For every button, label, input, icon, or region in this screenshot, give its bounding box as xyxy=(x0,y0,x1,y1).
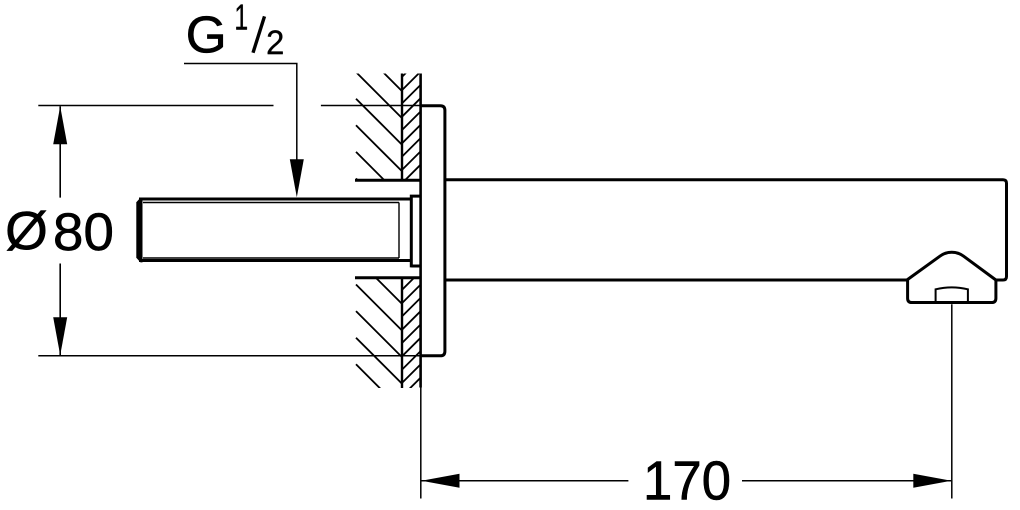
threaded nipple G1/2 outer lines xyxy=(139,199,411,261)
wall hole top edge xyxy=(355,179,421,182)
170 arrow left xyxy=(422,474,460,488)
dimension G 1/2 leader line xyxy=(184,64,297,162)
label 170 xyxy=(647,462,670,500)
dimension Ø80 bottom extension xyxy=(38,355,420,357)
dimension 170 line xyxy=(422,480,952,482)
outlet dome top xyxy=(907,252,996,280)
spout body bottom line xyxy=(445,279,907,282)
Ø80 arrow down xyxy=(53,317,67,355)
dimension line Ø80 top extension xyxy=(38,105,420,107)
wall back line xyxy=(401,74,403,389)
nipple chamfered left end xyxy=(136,198,142,263)
outlet housing lower box xyxy=(908,279,996,303)
aerator insert xyxy=(936,287,968,301)
wall hatching xyxy=(356,45,421,410)
label Ø80 xyxy=(7,211,46,251)
dimension 170 left extension (wall line continuation) xyxy=(420,388,422,499)
wall hole bottom edge xyxy=(355,276,421,279)
Ø80 arrow up xyxy=(53,106,67,144)
nipple thread root lines xyxy=(143,203,399,259)
collar at wall xyxy=(411,195,420,268)
label G 1/2 xyxy=(188,16,222,53)
fraction slash xyxy=(253,16,265,52)
dimension Ø80 vertical line xyxy=(59,106,61,355)
dimension 170 right extension (outlet centerline) xyxy=(951,304,953,498)
spout body top and right edge xyxy=(445,180,1007,280)
170 arrow right xyxy=(913,474,951,488)
wall surface line xyxy=(419,74,422,388)
flange (escutcheon) outline xyxy=(421,106,445,356)
leader arrow down xyxy=(290,159,304,197)
